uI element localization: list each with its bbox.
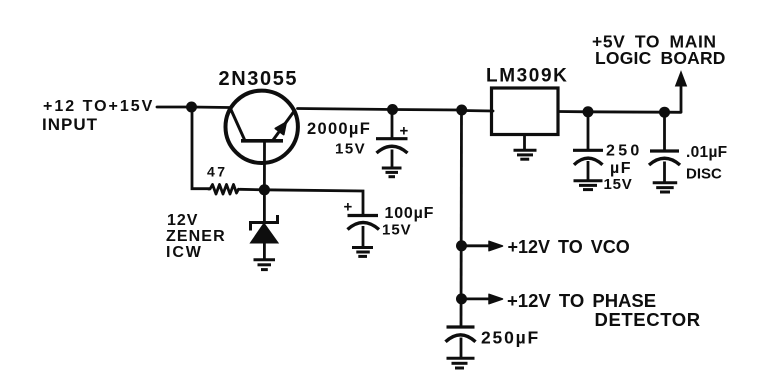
transistor Q1 2N3055 (226, 91, 298, 163)
regulator U1 LM309K (492, 88, 559, 135)
svg-text:µF: µF (610, 160, 632, 177)
svg-text:DETECTOR: DETECTOR (595, 309, 701, 330)
wire node F to 100uF corner (264, 190, 363, 216)
wire transistor base lead (263, 141, 266, 190)
node D (583, 106, 594, 117)
node C (456, 105, 467, 116)
capacitor C4 .01uF (649, 112, 680, 182)
svg-text:DISC: DISC (686, 166, 722, 183)
arrow to phase detector (462, 294, 503, 303)
svg-text:2000µF: 2000µF (307, 120, 371, 138)
wire emitter to node B (298, 109, 394, 110)
svg-text:ICW: ICW (166, 244, 203, 261)
svg-text:100µF: 100µF (385, 205, 435, 222)
capacitor C1 100uF (348, 216, 380, 248)
svg-text:+: + (344, 199, 353, 216)
wire regulator output to node D (558, 110, 588, 113)
node G vco tap (456, 240, 467, 251)
node F (259, 184, 270, 195)
svg-text:+: + (400, 123, 409, 140)
svg-text:+12V TO PHASE: +12V TO PHASE (507, 290, 656, 311)
svg-text:12V: 12V (167, 212, 198, 229)
wire regulator ground stem (523, 135, 526, 150)
svg-text:INPUT: INPUT (42, 115, 98, 134)
svg-text:.01µF: .01µF (686, 144, 727, 161)
svg-text:+12V TO VCO: +12V TO VCO (508, 237, 630, 257)
capacitor C5 250uF (446, 327, 476, 357)
svg-text:LM309K: LM309K (486, 66, 568, 87)
node H phase tap (456, 293, 467, 304)
svg-text:250: 250 (606, 143, 643, 160)
svg-text:15V: 15V (335, 141, 366, 158)
capacitor C3 250uF (573, 112, 603, 181)
wire node D to node E (588, 110, 665, 113)
ground (U1) (514, 150, 537, 159)
svg-text:ZENER: ZENER (166, 228, 226, 245)
node E (659, 107, 670, 118)
resistor R 47 (209, 185, 239, 195)
wire node B to node C (393, 108, 462, 111)
ground (C2) (382, 168, 402, 177)
arrow to VCO (462, 241, 503, 250)
ground (zener) (254, 260, 276, 270)
ground (C4) (653, 183, 678, 192)
svg-text:47: 47 (207, 164, 228, 180)
ground (C1) (352, 248, 373, 257)
svg-text:LOGIC BOARD: LOGIC BOARD (595, 48, 726, 68)
svg-text:15V: 15V (382, 222, 412, 239)
node A (186, 102, 197, 113)
wire node E to output corner (665, 111, 682, 114)
ground (C5) (447, 358, 475, 368)
wire resistor to node F (240, 188, 264, 191)
svg-text:2N3055: 2N3055 (219, 68, 299, 90)
node B (387, 104, 398, 115)
wire node C to regulator input (462, 109, 493, 112)
wire collector lead (191, 106, 229, 109)
svg-text:250µF: 250µF (481, 328, 540, 348)
svg-text:+12 TO+15V: +12 TO+15V (43, 98, 154, 115)
arrow +5V output (676, 72, 687, 113)
wire left drop to resistor (192, 107, 209, 189)
svg-text:15V: 15V (604, 176, 633, 193)
ground (C3) (574, 181, 603, 190)
wire input lead (157, 106, 191, 109)
zener diode D1 (251, 217, 278, 260)
wire 12V bus down (460, 110, 463, 327)
capacitor C2 2000uF (376, 110, 408, 168)
wire node F down to zener (263, 190, 266, 223)
